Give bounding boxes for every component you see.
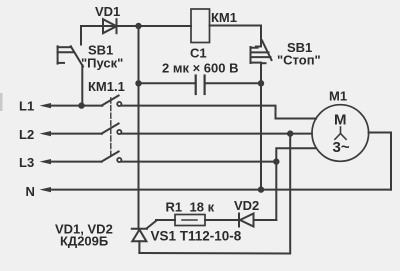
wire snubber bottom loop — [139, 134, 290, 254]
svg-text:VD2: VD2 — [234, 198, 259, 213]
svg-text:VS1 Т112-10-8: VS1 Т112-10-8 — [151, 229, 242, 244]
svg-text:3~: 3~ — [333, 139, 350, 156]
contact KM1.1 pole 1 — [102, 96, 122, 107]
wire: Stop/C1 node down to N — [260, 83, 262, 189]
terminal arrow L3 — [40, 159, 102, 164]
svg-text:"Стоп": "Стоп" — [277, 53, 321, 68]
contact KM1.1 pole 2 — [102, 124, 122, 135]
svg-text:L3: L3 — [19, 155, 34, 170]
svg-text:R1: R1 — [166, 200, 183, 215]
svg-text:N: N — [26, 184, 35, 199]
edge smudge left middle — [0, 93, 3, 111]
wire L2 to motor — [122, 133, 312, 135]
svg-text:М: М — [334, 112, 347, 129]
node dot N / Stop branch — [258, 186, 264, 192]
svg-text:КД209Б: КД209Б — [60, 234, 108, 249]
svg-text:M1: M1 — [329, 89, 347, 104]
terminal arrow L1 — [40, 103, 103, 108]
svg-text:L2: L2 — [19, 127, 34, 142]
svg-text:КМ1.1: КМ1.1 — [88, 79, 125, 94]
svg-text:VD1: VD1 — [95, 4, 120, 19]
mechanical linkage (dashed) — [110, 98, 112, 158]
wire motor right side loop to N — [369, 133, 391, 190]
node dot at C1 left — [135, 80, 141, 86]
svg-text:L1: L1 — [19, 99, 34, 114]
svg-text:18 к: 18 к — [190, 200, 215, 215]
svg-text:"Пуск": "Пуск" — [81, 56, 123, 71]
pushbutton SB1 "Стоп" — [251, 41, 272, 84]
terminal arrow N + wire N to motor loop — [40, 187, 392, 192]
diode VD1 — [103, 19, 117, 33]
wire: KM1 right side to Stop button — [210, 26, 262, 47]
svg-text:С1: С1 — [190, 46, 207, 61]
terminal arrow L2 — [40, 131, 103, 136]
motor M1 circle — [312, 105, 369, 162]
wire: top rail y=26 from Pusk corner to KM1 coil — [81, 26, 191, 45]
node dot Pusk to L1 — [78, 102, 84, 108]
wire VD2 up to L3 node — [275, 162, 277, 220]
contactor coil KM1 — [191, 9, 210, 43]
pushbutton SB1 "Пуск" — [58, 46, 83, 105]
diode VD2 — [239, 214, 276, 227]
thyristor VS1 — [132, 221, 157, 254]
contact KM1.1 pole 3 — [102, 152, 122, 163]
node dot at C1 right / Stop — [258, 80, 264, 86]
node dot L2 / snubber — [287, 130, 293, 136]
capacitor C1 — [139, 76, 261, 95]
svg-text:КМ1: КМ1 — [211, 10, 237, 25]
wire L3 to motor (jog up) — [122, 148, 317, 161]
node dot L3 / VD2 branch — [273, 158, 279, 164]
wire: main vertical bus x=138.5 (VD1 node down to VS1) — [138, 26, 140, 229]
node dot at VD1 cathode / bus — [135, 23, 141, 29]
resistor R1 — [156, 215, 238, 226]
motor propeller symbol — [335, 127, 346, 139]
wire L1 to motor (jog) — [122, 106, 317, 119]
svg-text:2 мк × 600 В: 2 мк × 600 В — [162, 61, 238, 76]
